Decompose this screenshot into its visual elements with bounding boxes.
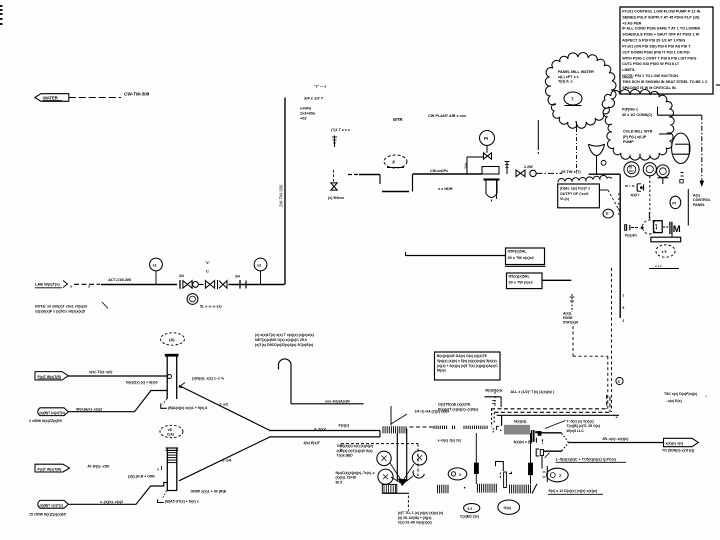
svg-text:x1: x1	[153, 263, 157, 267]
cloud tail	[576, 121, 577, 128]
header block valve	[516, 170, 525, 177]
svg-text:"x" — x: "x" — x	[314, 85, 326, 89]
pipe main water header	[348, 174, 358, 176]
svg-text:25 TW x(T): 25 TW x(T)	[561, 169, 581, 174]
svg-text:C(x) 91–60 G(x)(x)(x): C(x) 91–60 G(x)(x)(x)	[398, 521, 432, 525]
vent tee on header	[506, 162, 508, 175]
hose station symbol	[571, 294, 573, 312]
flag WATER supply (top-left)	[35, 94, 69, 102]
dashed stub from modem	[494, 392, 496, 408]
tick row (hose) section 2	[434, 426, 447, 429]
instrument oval in cloud	[564, 92, 582, 105]
svg-text:(B)A5 UT(x) + N(x) x: (B)A5 UT(x) + N(x) x	[165, 499, 199, 503]
svg-text:LIMITS.: LIMITS.	[622, 68, 635, 72]
reducer: bottom run	[544, 450, 562, 452]
pipe collection header upper	[269, 430, 380, 432]
pressure gauge PI	[480, 131, 495, 146]
svg-text:COLD MILL WTR: COLD MILL WTR	[623, 130, 653, 134]
svg-text:P(x)(x)T (x)(x)(x)–(x)0(x): P(x)(x)T (x)(x)(x)–(x)0(x)	[438, 408, 479, 412]
svg-text:1C1: 1C1	[629, 169, 635, 173]
svg-text:(x)(B)T x(x)T(x): (x)(B)T x(x)T(x)	[40, 503, 63, 507]
signal line down to panel (dash-dot) with arrow	[701, 115, 703, 180]
instrument TSH-101	[624, 162, 639, 177]
svg-text:Te(x)(x)(x) x(x) (x)(x)(x): Te(x)(x)(x) x(x) (x)(x)(x)	[337, 444, 373, 448]
nitrogen box 1	[506, 248, 545, 265]
svg-text:D5(x)(x)5AL: D5(x)(x)5AL	[509, 275, 531, 279]
instrument bubble on lab line 2	[254, 258, 267, 271]
nozzle solid triangle	[398, 479, 408, 486]
drain branch dashed	[333, 170, 335, 183]
pipe solid below dashed pair	[497, 414, 619, 416]
static mixer hatch band	[167, 452, 177, 454]
svg-text:TO (5ON(x)–(x)T(x)): TO (5ON(x)–(x)T(x))	[662, 449, 694, 453]
leader cloud2 to panel line	[657, 107, 659, 116]
svg-text:CUT DOWN PSIG (PSI IT PSI 1: CUT DOWN PSIG (PSI IT PSI 1 ON PSI	[622, 50, 689, 54]
lower outlet bracket	[536, 449, 539, 456]
S instrument circle	[616, 377, 623, 384]
svg-text:30 x TW (x)x2: 30 x TW (x)x2	[509, 281, 533, 285]
svg-text:P(x)xPx: P(x)xPx	[625, 233, 637, 237]
signal dashed risers (nitrogen purge)	[611, 268, 613, 412]
instrument bubble on lab line 1	[150, 258, 163, 271]
svg-text:x(x)I t: x(x)I t	[631, 193, 641, 197]
svg-text:90.5: 90.5	[336, 480, 343, 484]
vertical pump/tank	[672, 133, 690, 163]
svg-text:P(x)T W(x)T(R): P(x)T W(x)T(R)	[38, 467, 62, 471]
air control panel: PI oval	[670, 196, 681, 208]
valve on lab line	[183, 281, 192, 289]
small marks right of cluster	[681, 172, 684, 174]
svg-text:(x)O(x) (x)T(x)(x)5 G(x): (x)O(x) (x)T(x)(x)5 G(x)	[337, 449, 373, 453]
filter bowl	[486, 181, 497, 198]
pipe mbt water 1	[68, 391, 167, 412]
svg-text:O(x)T5(x)E (x)(x)TE: O(x)T5(x)E (x)(x)TE	[438, 403, 471, 407]
svg-text:L–5(x)(x)(x)C + TC5(x)(x)(x): L–5(x)(x)(x)C + TC5(x)(x)(x) Q.PC(x)	[556, 458, 617, 462]
svg-text:"x": "x"	[205, 261, 210, 265]
pipe dashed after hose	[410, 426, 434, 428]
svg-text:A(x)L: A(x)L	[563, 311, 573, 315]
static mixer cylinder	[382, 484, 397, 493]
tee support under instrument	[658, 177, 669, 179]
svg-text:2.2W: 2.2W	[524, 165, 533, 169]
svg-text:TI: TI	[605, 212, 608, 216]
pipe diagonal from tee 2	[179, 437, 270, 481]
dash marks next to riser	[618, 193, 620, 218]
leader from delivery box to riser	[600, 189, 609, 191]
bottom tag oval GA	[498, 500, 520, 514]
svg-text:x–G(x) J(x) 2x(: x–G(x) J(x) 2x(	[438, 438, 462, 442]
svg-text:PANEL MILL WATER: PANEL MILL WATER	[558, 70, 594, 74]
gauge isolation valve	[484, 153, 492, 159]
svg-text:5L x–x–x–(x): 5L x–x–x–(x)	[200, 304, 222, 308]
svg-text:4(x)(x) x (F): 4(x)(x) x (F)	[513, 440, 532, 444]
svg-text:HO5E: HO5E	[563, 316, 573, 320]
page-edge marks	[0, 5, 3, 7]
svg-text:P(x)T W(x)T(R): P(x)T W(x)T(R)	[38, 375, 62, 379]
gooseneck vent	[278, 359, 291, 366]
svg-text:ON5P x(x)1 + 90 (R)E: ON5P x(x)1 + 90 (R)E	[191, 490, 227, 494]
pipe from nitrogen box 2	[542, 279, 571, 281]
union bracket 2	[239, 280, 241, 289]
union tick on lab line	[245, 281, 247, 289]
svg-text:(3) 25–32(36) + (3)(x): (3) 25–32(36) + (3)(x)	[398, 516, 432, 520]
valve 2 on lab line	[205, 281, 214, 289]
svg-text:(x)(x) + 5(x)(x) (x)5 T(x) (x): (x)(x) + 5(x)(x) (x)5 T(x) (x)(x)(x)A(x)…	[437, 364, 498, 368]
svg-text:7: 7	[622, 294, 624, 298]
pipe to nitrogen box	[405, 252, 407, 256]
cloud 3 bumps above box	[558, 175, 612, 182]
svg-text:D5P(x)5AL: D5P(x)5AL	[508, 250, 528, 254]
svg-text:(B)A(x)(x) x(x)1 + 9(x).8: (B)A(x)(x) x(x)1 + 9(x).8	[168, 406, 207, 410]
svg-text:2: 2	[459, 473, 461, 477]
svg-text:WITH PSIG 1 CONT T PSI 8 PSI: WITH PSIG 1 CONT T PSI 8 PSI LIST PSIG	[622, 56, 696, 60]
drop valve 1 (solid)	[475, 433, 477, 463]
svg-text:THIS SCH IS SHOWN IN SEAT STEE: THIS SCH IS SHOWN IN SEAT STEEL TO BE 1 …	[622, 80, 708, 84]
svg-text:OUTPT OF CxxO: OUTPT OF CxxO	[560, 192, 589, 196]
svg-text:SCHEDULE PSIG + SHUT OFF AT PS: SCHEDULE PSIG + SHUT OFF AT PSIG 1 W	[622, 32, 699, 36]
gauge below lab line	[187, 294, 198, 305]
svg-text:(A): (A)	[169, 337, 175, 342]
svg-text:M: M	[673, 224, 681, 235]
svg-text:PI: PI	[672, 201, 676, 205]
svg-text:N(x)Z(x) (x) + 9(x)0: N(x)Z(x) (x) + 9(x)0	[126, 381, 157, 385]
flag POT WATER 1	[35, 372, 68, 380]
svg-text:NET(x)(x)NG O(x) x(x)(x)C 2: NET(x)(x)NG O(x) x(x)(x)C 25.0	[255, 338, 307, 342]
svg-text:C(x)ED 2(x): C(x)ED 2(x)	[460, 515, 479, 519]
coupling dashes	[631, 227, 634, 229]
svg-text:3/4: 3/4	[179, 274, 184, 278]
drop pipes to nozzle	[396, 433, 398, 482]
signal dashed down from cluster to pump	[649, 176, 651, 220]
vent to atmosphere symbol	[334, 136, 336, 148]
svg-text:ACT-CW-306: ACT-CW-306	[107, 277, 132, 282]
revision cloud (panel mill water)	[545, 52, 616, 128]
svg-text:30 x 1/2 CONN(C): 30 x 1/2 CONN(C)	[622, 113, 653, 117]
svg-text:x+0Pa: x+0Pa	[300, 107, 312, 111]
svg-text:SERIES PULP SUPPLY AT 45 PSIG: SERIES PULP SUPPLY AT 45 PSIG PLP (10)	[622, 16, 700, 20]
svg-text:T–5(x) (x) T(x)(x): T–5(x) (x) T(x)(x)	[567, 419, 594, 423]
svg-text:5: 5	[622, 306, 624, 310]
svg-text:A(x): A(x)	[693, 194, 701, 198]
svg-text:T5C x(x) D(x)P(x)(x): T5C x(x) D(x)P(x)(x)	[664, 392, 698, 396]
instrument TI oval	[603, 209, 613, 218]
tag bubble VE/CA (dashed)	[160, 425, 183, 437]
svg-text:5N–x(x)–x(x)(x): 5N–x(x)–x(x)(x)	[603, 437, 630, 441]
svg-text:CW PLANT AIR x xxx: CW PLANT AIR x xxx	[428, 114, 467, 118]
mixer column 1	[166, 356, 168, 399]
leader from cloud to check circle	[537, 120, 539, 150]
svg-text:N(x)(x)L: N(x)(x)L	[514, 420, 528, 424]
pipe main header continues	[413, 173, 483, 175]
svg-text:x 5: x 5	[662, 250, 667, 254]
nozzle port dot	[168, 375, 172, 379]
svg-text:P(P)NG x: P(P)NG x	[622, 108, 639, 112]
svg-text:xxx–D(x)A(x)N: xxx–D(x)A(x)N	[325, 400, 350, 404]
pipe lab water	[101, 284, 177, 286]
pipe gooseneck drain run	[291, 403, 364, 405]
svg-text:5(x)(x) (x)(x) x 5(x) (x)(x)(: 5(x)(x) (x)(x) x 5(x) (x)(x)(x)(x) 5(x)(…	[437, 359, 497, 363]
svg-text:T(U) IL x: T(U) IL x	[558, 80, 574, 84]
svg-text:x(x)–T(x)–x(x): x(x)–T(x)–x(x)	[88, 370, 113, 374]
svg-text:ALL x (1/2)″ T(x) (1(x)(x): ALL x (1/2)″ T(x) (1(x)(x)/ )	[511, 390, 556, 394]
svg-text:N(x)C(x)(x)(x)(x)–Te(x)–x: N(x)C(x)(x)(x)(x)–Te(x)–x	[336, 471, 375, 475]
svg-text:4–T(x)L: 4–T(x)L	[313, 427, 327, 431]
svg-text:WTR: WTR	[393, 117, 403, 122]
svg-text:(x)(x)L 23+30: (x)(x)L 23+30	[336, 476, 357, 480]
dashed leader down	[407, 496, 409, 511]
thin riser plate	[504, 472, 507, 488]
svg-text:T(x)x (B)D: T(x)x (B)D	[337, 453, 354, 457]
signal dashed corners up	[606, 395, 608, 409]
pump casing	[654, 221, 663, 233]
pipe collection header lower	[269, 436, 380, 438]
delivery note box	[558, 184, 600, 208]
svg-text:(P) P(L) x(L)P: (P) P(L) x(L)P	[623, 135, 647, 139]
svg-text:B(x)(x)(x)E DA(x) O(x) (x)(x)T: B(x)(x)(x)E DA(x) O(x) (x)(x)TE	[437, 354, 488, 358]
svg-text:x–(x)(x)–x(x)2: x–(x)(x)–x(x)2	[99, 500, 123, 504]
check circle on header	[530, 170, 536, 176]
svg-text:PANEL: PANEL	[693, 203, 706, 207]
reducer: top run	[541, 432, 562, 434]
pump suction bracket	[624, 225, 626, 231]
svg-text:+0Z: +0Z	[300, 117, 307, 121]
pipe header to riser corner	[589, 173, 621, 175]
svg-text:2: 2	[622, 319, 624, 323]
svg-text:2W-TW-306: 2W-TW-306	[279, 184, 284, 207]
union bracket	[179, 280, 181, 289]
svg-text:C(A): C(A)	[167, 432, 174, 436]
modem leader	[484, 396, 501, 398]
svg-text:3/4: 3/4	[235, 275, 240, 279]
svg-text:M(x)x: M(x)x	[437, 369, 446, 373]
pipe riser 2W-TW-306	[284, 98, 286, 285]
signal dashed pair horizontal	[491, 408, 607, 410]
flow arrow	[641, 226, 644, 229]
signal dash-dot from cloud to header	[576, 128, 578, 173]
svg-text:5 2: 5 2	[468, 507, 473, 511]
svg-text:+3 AS PER: +3 AS PER	[622, 22, 641, 26]
svg-text:CONTROL: CONTROL	[693, 198, 712, 202]
svg-text:IF ALL COND PSIG SAFE T AT: IF ALL COND PSIG SAFE T AT 1 TO LOWER	[622, 27, 700, 31]
flag MBT WATER 1	[38, 408, 69, 416]
spray nozzle circle 4	[413, 471, 424, 479]
svg-text:3/4 x 1/2 T: 3/4 x 1/2 T	[304, 96, 324, 101]
pump impeller (dashed circle)	[643, 220, 657, 234]
svg-text:2 x50W N(x)ZZ(x)E5: 2 x50W N(x)ZZ(x)E5	[29, 419, 62, 423]
baseplate	[651, 237, 681, 242]
converging lines	[390, 463, 401, 480]
svg-text:(x) x(x)LT(x) x(x) T x(x)(x): (x) x(x)LT(x) x(x) T x(x)(x) (x)(x)x(x)	[255, 333, 315, 337]
flex hose section 1	[383, 426, 406, 433]
flex hose tall section	[505, 425, 529, 435]
solenoid with plug	[636, 184, 638, 191]
spray nozzle circle 1	[377, 451, 391, 465]
svg-text:x(x)(x) x(x): x(x)(x) x(x)	[666, 442, 684, 446]
svg-text:VL(x): VL(x)	[560, 197, 570, 201]
leader up from hose	[390, 406, 392, 426]
svg-text:SPACING IS W M CRITICAL IN.: SPACING IS W M CRITICAL IN.	[622, 86, 676, 90]
svg-text:PI-101 CONTROL LOW-FLOW PUMP P: PI-101 CONTROL LOW-FLOW PUMP P-12 IN	[622, 10, 700, 14]
spray nozzle circle 2	[412, 451, 426, 465]
instrument Q1	[643, 163, 656, 176]
drops below bracket	[541, 456, 543, 469]
svg-text:x: x	[157, 468, 159, 472]
flag MBT WATER 2	[38, 500, 69, 508]
instrument oval (dashed) on header	[384, 155, 407, 168]
revision cloud (cold mill wtr pump)	[602, 89, 674, 160]
svg-text:1–x/2: 1–x/2	[219, 403, 229, 407]
svg-text:30 x TW x(x)x2: 30 x TW x(x)x2	[508, 256, 534, 260]
wire dashed from WATER flag	[69, 97, 121, 99]
svg-text:15 x50W N(x)Z(x)(x)E5: 15 x50W N(x)Z(x)(x)E5	[29, 513, 66, 517]
panel boundary line	[687, 189, 689, 226]
pipe dash-dot segment	[537, 172, 563, 174]
svg-text:4(x) E(x)T: 4(x) E(x)T	[303, 441, 321, 445]
svg-text:1–x/4: 1–x/4	[222, 459, 231, 463]
svg-text:(x)T(x) D5CO(x)/D(x)A(x) 5C(x): (x)T(x) D5CO(x)/D(x)A(x) 5C(x)E(x)	[255, 343, 314, 347]
column1 bottom hook	[163, 399, 167, 404]
svg-text:x2(x)0(x)P x (x)5Cx x0(x)x(x)5: x2(x)0(x)P x (x)5Cx x0(x)x(x)5	[35, 309, 85, 313]
flex hose lower 2	[477, 484, 496, 493]
svg-text:P(x)(x): P(x)(x)	[339, 424, 350, 428]
notes box	[620, 7, 713, 94]
drop valve 2 (solid)	[530, 433, 532, 463]
svg-text:CUT1 PSIG SSI PSIG W PSI: CUT1 PSIG SSI PSIG W PSI 8 LT	[622, 62, 680, 66]
svg-text:E(x) x 12 D(x)(x) (x)(x): E(x) x 12 D(x)(x) (x)(x) x(x)(x)	[549, 489, 599, 493]
dash-dot to solenoid	[625, 185, 635, 187]
svg-text:5P(x)A(x)–x(x)2: 5P(x)A(x)–x(x)2	[76, 408, 102, 412]
svg-text:LAB W(x)T(x): LAB W(x)T(x)	[35, 282, 60, 287]
column2 bottom hook	[162, 491, 166, 499]
svg-text:,: ,	[706, 393, 707, 398]
svg-text:x2: x2	[257, 263, 261, 267]
drain funnel	[588, 144, 604, 146]
svg-text:(x)(B)T (x)(x)T(x): (x)(B)T (x)(x)T(x)	[40, 411, 66, 415]
svg-text:M–R(x)–x50: M–R(x)–x50	[88, 464, 110, 469]
svg-text:x x HDR: x x HDR	[438, 187, 453, 191]
svg-text:C: C	[206, 269, 209, 274]
svg-text:–x(x) E(x): –x(x) E(x)	[666, 399, 682, 403]
pipe outlet	[568, 442, 663, 444]
pipe dip seal	[379, 175, 381, 185]
svg-text:2x3+90a: 2x3+90a	[300, 112, 316, 116]
ticks small	[438, 485, 449, 493]
check circle	[193, 282, 199, 288]
equipment tag oval (dashed)	[656, 245, 675, 257]
leader to TS note	[545, 421, 565, 429]
svg-text:G(x): G(x)	[504, 506, 512, 510]
pipe pot water 1	[68, 375, 166, 377]
outlet connection block bars	[531, 430, 533, 442]
Z tag oval	[547, 468, 569, 482]
flag POT WATER 2	[35, 464, 70, 472]
svg-text:x x x: x x x	[655, 264, 662, 268]
svg-text:CW-TW-308: CW-TW-308	[124, 92, 150, 97]
mixer column 2	[166, 448, 168, 491]
svg-text:NOTE: x0 x00(x)T x0x1 x0(x)x0: NOTE: x0 x00(x)T x0x1 x0(x)x0	[35, 305, 87, 309]
corner bracket mid	[496, 462, 504, 472]
svg-text:(D)AL x(x) P(x)T x: (D)AL x(x) P(x)T x	[560, 187, 590, 191]
leader cloud2 to pump	[659, 133, 671, 135]
svg-text:M(x)DE(x)x: M(x)DE(x)x	[485, 389, 502, 393]
svg-text:PI-101 (ON PSI SSI) PSI-0 PSI: PI-101 (ON PSI SSI) PSI-0 PSI AS PSI T	[622, 44, 691, 48]
before-day note box	[435, 352, 501, 380]
svg-text:(x)T TD–1 (x) (x)(x) (x)(x): (x)T TD–1 (x) (x)(x) (x)(x) (x)	[398, 511, 444, 515]
drain valve	[331, 183, 337, 190]
bottom tag oval S2b	[464, 504, 480, 513]
svg-text:ASPECT S PSI PSI 29 1/2 AT 1: ASPECT S PSI PSI 29 1/2 AT 1 PSIG	[622, 38, 685, 42]
svg-text:W(x)5 LLC: W(x)5 LLC	[567, 429, 585, 433]
svg-text:(x) 5Hxxx: (x) 5Hxxx	[328, 196, 344, 200]
leader arrow to column	[179, 383, 185, 389]
svg-text:CW-xxDPx: CW-xxDPx	[430, 169, 449, 173]
spray nozzle circle 3	[378, 469, 393, 484]
svg-text:3/4x: 3/4x	[464, 162, 468, 169]
svg-text:T(x)(B) (x)TL 25 O(x): T(x)(B) (x)TL 25 O(x)	[567, 424, 601, 428]
riser pipe down (right)	[619, 174, 621, 318]
dashed enclosure	[341, 443, 418, 445]
check valve	[219, 281, 227, 289]
coupling to motor	[663, 226, 665, 228]
nitrogen box 2	[507, 273, 543, 289]
svg-text:(x)N(x)L x(1) 1–x %: (x)N(x)L x(1) 1–x %	[192, 377, 225, 381]
svg-text:PUMP: PUMP	[623, 140, 634, 144]
instrument PT	[657, 165, 670, 178]
gauge branch: stem	[466, 157, 468, 174]
tag bubble A (dashed)	[161, 333, 185, 345]
filter-regulator body	[482, 167, 499, 175]
outlet flag	[664, 438, 699, 446]
svg-text:WATER: WATER	[43, 96, 58, 101]
svg-text:5TAT(x)N: 5TAT(x)N	[563, 321, 579, 325]
svg-text:PI: PI	[484, 136, 488, 141]
notes underline	[623, 77, 634, 79]
pipe mbt water 2	[68, 483, 167, 505]
svg-text:(x)(L)N B + O5N: (x)(L)N B + O5N	[128, 475, 155, 479]
S2 tag oval	[448, 468, 467, 480]
junction marks	[491, 409, 493, 428]
pipe diagonal from tee 1	[179, 386, 270, 431]
svg-text:x(L) xPT x x: x(L) xPT x x	[558, 75, 580, 79]
svg-text:(?)1 T x x x: (?)1 T x x x	[331, 128, 350, 132]
line under tag	[649, 268, 679, 270]
